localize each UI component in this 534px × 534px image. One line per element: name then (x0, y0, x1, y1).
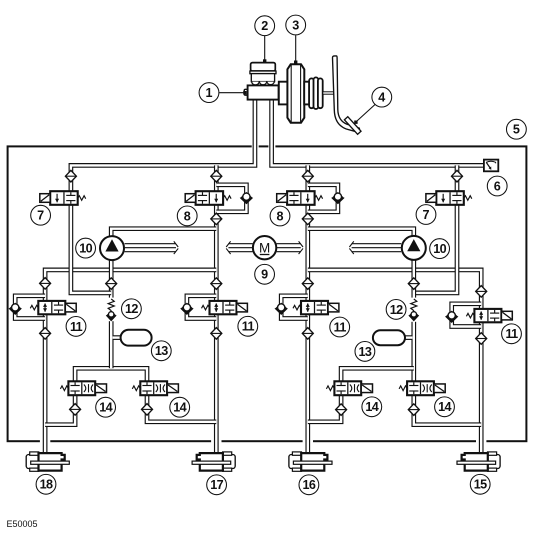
inlet valve 11 far-right (466, 309, 512, 322)
callout 11 far-right (502, 324, 522, 344)
callout 5 (507, 119, 527, 139)
callout 15 (470, 474, 490, 494)
filter symbol 2 (211, 170, 222, 182)
svg-text:7: 7 (37, 209, 44, 223)
callout 14a (96, 397, 116, 417)
svg-text:2: 2 (261, 19, 268, 33)
pipe: left accumulator stub (113, 335, 121, 340)
pipe: valve 11 center-right bypass loop (281, 296, 308, 319)
callout 12 right (386, 300, 406, 320)
svg-text:14: 14 (99, 401, 112, 415)
callout 14c (362, 397, 382, 417)
svg-text:17: 17 (210, 478, 223, 492)
svg-text:M: M (259, 240, 270, 255)
filter symbol 16 (476, 333, 487, 345)
svg-text:7: 7 (422, 208, 429, 222)
callout 11 far-left (66, 317, 86, 337)
pipe: right pump suction line to valve 14d (411, 259, 416, 382)
accumulator 13 left (121, 330, 152, 346)
pipe: left dump manifold valves 14a 14b (75, 368, 147, 382)
fluid reservoir (251, 74, 274, 85)
filter symbol 9 (211, 278, 222, 290)
svg-text:1: 1 (205, 86, 212, 100)
callout 6 (487, 176, 507, 196)
pipe: right pump loop top (308, 229, 414, 237)
callout 4 (372, 87, 392, 107)
pipe: valve 14c outlet to right main line (308, 395, 341, 422)
master cylinder 1 (244, 85, 278, 99)
callout 14d (435, 397, 455, 417)
svg-text:5: 5 (513, 123, 520, 137)
accumulator 13 right (373, 330, 405, 345)
filter symbol 12 (476, 286, 487, 298)
pipe: master cylinder secondary to right manifold and pressure switch (272, 97, 484, 165)
svg-text:14: 14 (438, 400, 451, 414)
pump 10 right (402, 236, 426, 260)
callout 1 leader (219, 91, 246, 94)
inlet valve 11 center-right (293, 301, 339, 314)
pipe: valve 7 right drop and link to right pump suction (414, 165, 457, 293)
wheel brake 15 (457, 452, 500, 471)
svg-text:E50005: E50005 (7, 519, 38, 529)
filter symbol 18 (142, 404, 153, 416)
wheel brake 16 (289, 452, 332, 471)
svg-text:18: 18 (40, 478, 53, 492)
svg-text:9: 9 (261, 268, 268, 282)
svg-text:14: 14 (365, 400, 378, 414)
pipe: valve 8 left bypass loop (216, 185, 246, 212)
svg-text:11: 11 (70, 320, 83, 334)
svg-text:14: 14 (173, 401, 186, 415)
wheel brake 17 (192, 452, 235, 471)
callout 18 (36, 474, 56, 494)
svg-text:6: 6 (494, 179, 501, 193)
brake pedal pad (344, 117, 361, 135)
callout 9 (255, 264, 275, 284)
svg-text:8: 8 (276, 209, 283, 223)
filter symbol 15 (302, 328, 313, 340)
callout 7 left (31, 205, 51, 225)
booster bellows (309, 77, 323, 109)
check valve of valve 8 left (241, 193, 252, 204)
filter symbol 4 (452, 170, 463, 182)
outlet valve 14d (399, 381, 445, 395)
solenoid valve 8 left (185, 191, 231, 205)
inlet valve 11 far-left (30, 301, 76, 314)
pipe: left return line and wheel 18 line (45, 270, 216, 453)
filter symbol 19 (336, 404, 347, 416)
filter symbol 20 (408, 404, 419, 416)
motor left flow lines (226, 241, 252, 254)
callout 7 right (416, 205, 436, 225)
svg-text:11: 11 (242, 320, 255, 334)
check valve of valve 8 right (332, 193, 343, 204)
pressure switch 6 (484, 160, 498, 172)
pipe: left pump suction line (109, 259, 114, 368)
filter symbol 11 (408, 278, 419, 290)
outlet valve 14a (60, 381, 106, 395)
electric motor 9 (253, 236, 276, 259)
callout 10 right (430, 239, 450, 259)
svg-text:10: 10 (433, 242, 446, 256)
filter symbol 3 (302, 170, 313, 182)
callout 16 (299, 475, 319, 495)
box edge gaps for pipes (40, 143, 487, 444)
pipe: right circuit main line to wheel 16 (305, 165, 310, 452)
pipe: right dump manifold to valve 14c (341, 368, 414, 382)
svg-text:13: 13 (155, 344, 168, 358)
pipe: valve 14b outlet to left main line (147, 395, 216, 422)
reservoir cap 2 (250, 63, 276, 74)
pipe: valve 7 left output link (71, 204, 111, 293)
pipe: valve 11 far-left bypass loop (15, 296, 45, 319)
svg-text:4: 4 (378, 91, 385, 105)
pipe: right return line and wheel 15 line (308, 270, 481, 453)
filter symbol 13 (40, 328, 51, 340)
booster push rod (323, 92, 335, 94)
inlet valve 11 mid-left (202, 301, 248, 314)
svg-text:11: 11 (334, 320, 347, 334)
callout 17 (207, 475, 227, 495)
svg-text:8: 8 (184, 209, 191, 223)
motor right flow lines (277, 241, 303, 254)
callout 4 leader (354, 105, 375, 124)
callout 8 right (270, 206, 290, 226)
figure number E50005 (7, 519, 38, 529)
pump 10 right flow lines (349, 241, 401, 254)
brake pedal 4 arm (332, 56, 359, 132)
callout 12 left (121, 299, 141, 319)
brake booster 3 (279, 64, 310, 123)
check valve of valve 11 far-right (446, 312, 457, 323)
pipe: valve 11 far-right bypass loop (452, 304, 482, 327)
svg-text:12: 12 (390, 303, 403, 317)
filter symbol 17 (70, 404, 81, 416)
outlet valve 14b (132, 381, 178, 395)
svg-text:3: 3 (292, 18, 299, 32)
callout 10 left (76, 238, 96, 258)
filter symbol 5 (211, 213, 222, 225)
svg-text:11: 11 (505, 327, 518, 341)
valve 12 left (107, 299, 116, 320)
pipe: valve 11 mid-left bypass loop (187, 296, 216, 319)
filter symbol 6 (302, 213, 313, 225)
callout 13 left (151, 341, 171, 361)
pump 10 left flow lines (125, 241, 179, 254)
check valve of valve 11 far-left (10, 304, 21, 315)
valve 12 right (410, 299, 419, 320)
filter symbol 8 (106, 278, 117, 290)
pipe: valve 14d outlet to wheel 15 line (414, 395, 481, 425)
pipe: right accumulator stub (405, 335, 413, 340)
pipe gap for valve 12 right (409, 298, 418, 322)
solenoid valve 8 right (277, 191, 323, 205)
callout 1 (199, 83, 219, 103)
filter symbol 7 (40, 278, 51, 290)
svg-text:16: 16 (302, 478, 315, 492)
svg-text:12: 12 (125, 302, 138, 316)
pump 10 left (100, 236, 124, 260)
filter symbol 14 (211, 328, 222, 340)
svg-text:13: 13 (358, 345, 371, 359)
pipe: left pump loop top (111, 229, 216, 237)
callout 8 left (177, 206, 197, 226)
callout 11 center-right (330, 317, 350, 337)
check valve of valve 11 mid-left (181, 304, 192, 315)
pipe: left circuit main line to wheel 17 (214, 165, 219, 452)
solenoid valve 7 right (426, 191, 472, 205)
pipe gap for valve 12 left (107, 298, 116, 322)
callout 2 leader (263, 36, 266, 63)
pipe: valve 8 right bypass loop (308, 185, 338, 212)
outlet valve 14c (326, 381, 372, 395)
svg-text:10: 10 (79, 242, 92, 256)
callout 13 right (355, 342, 375, 362)
callout 3 leader (294, 35, 297, 64)
svg-text:15: 15 (474, 478, 487, 492)
check valve of valve 11 center-right (276, 304, 287, 315)
callout 11 mid-left (238, 316, 258, 336)
callout 3 (286, 15, 306, 35)
callout 2 (255, 16, 275, 36)
filter symbol 10 (302, 278, 313, 290)
pipe: master cylinder primary to left manifold and valve 7 left (71, 97, 255, 193)
solenoid valve 7 left (40, 191, 86, 205)
filter symbol 1 (65, 170, 76, 182)
wheel brake 18 (26, 452, 69, 471)
ABS hydraulic unit box 5 (8, 146, 527, 441)
callout 14b (170, 397, 190, 417)
pipe: valve 14a outlet to wheel 18 line (45, 395, 75, 425)
